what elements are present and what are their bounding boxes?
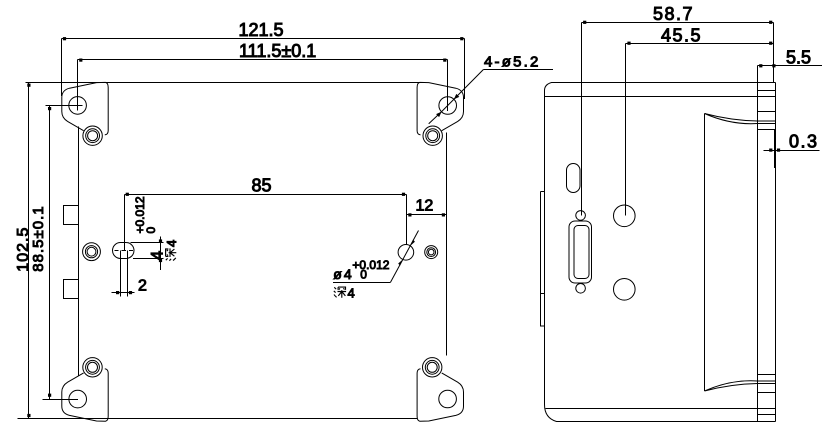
dim 5.5 extension left [757, 66, 759, 83]
body right edge [446, 133, 448, 356]
svg-text:85: 85 [252, 176, 272, 196]
dim 85 extension left (into slot) [124, 195, 126, 251]
centerline bottom-left hole horizontal [43, 399, 79, 401]
dim 0.3 extension [774, 130, 776, 169]
mounting hole top-right (ø5.2) [439, 97, 457, 115]
slot arc-center extension lines for dim 2 [121, 251, 128, 297]
mounting ear bottom-left (mirror) [62, 369, 108, 422]
dim 0.3 line [764, 150, 820, 152]
svg-text:12: 12 [416, 198, 434, 215]
dim 4 ticks [159, 239, 162, 242]
mounting ear top-right (mirror) [417, 82, 463, 134]
svg-text:111.5±0.1: 111.5±0.1 [239, 41, 316, 61]
slot centerline dashes [115, 250, 134, 252]
screw boss bottom-left [83, 358, 102, 377]
dim 121.5 ticks [63, 37, 66, 40]
lid rolled edge top curves [705, 114, 758, 124]
dim 58.7 extension right [773, 23, 775, 83]
dim 102.5 ticks [27, 84, 30, 87]
leader 4-ø5.2 chord through hole [442, 99, 454, 111]
dim 88.5 line vertical [49, 106, 51, 400]
D-sub connector outer [569, 221, 592, 283]
svg-text:0: 0 [144, 227, 158, 234]
DIN rail strip serration lines bottom [758, 375, 776, 415]
svg-text:4: 4 [348, 286, 355, 301]
D-sub connector inner [574, 226, 589, 279]
dim 5.5 line [758, 65, 823, 67]
svg-text:4-ø5.2: 4-ø5.2 [484, 54, 541, 71]
body bottom edge (with 102.5 extension) [18, 418, 418, 420]
depth note 深4 rotated for slot [164, 240, 179, 261]
dim 111.5 ticks [79, 59, 82, 62]
dim 121.5 line [62, 38, 465, 40]
svg-text:88.5±0.1: 88.5±0.1 [30, 205, 47, 271]
dim 58.7 line [582, 22, 774, 24]
lid rolled edge bottom curves [705, 381, 758, 391]
screw boss middle-right [425, 246, 438, 259]
depth note 深4 for ø4 hole [334, 286, 355, 301]
leader ø4 diagonal line with arrows [391, 231, 419, 283]
dim 111.5 extension left (to hole center) [77, 60, 79, 111]
dim 45.5 extension left (to connector center) [625, 44, 627, 216]
dim 4 (slot width) dimension line vertical [160, 237, 162, 271]
svg-text:58.7: 58.7 [653, 4, 694, 24]
leader 4-ø5.2 diagonal line [429, 70, 484, 124]
dim 111.5 extension right (to hole center) [447, 60, 449, 112]
mounting ear bottom-right (mirror) [417, 369, 463, 422]
dim 12 ticks [408, 213, 411, 216]
lid seam top [545, 96, 776, 98]
screw boss middle-left [83, 243, 101, 261]
screw boss top-left [83, 126, 102, 145]
mounting hole top-left (ø5.2) [69, 97, 87, 115]
leader 4-ø5.2 arrowheads [454, 94, 460, 100]
DIN rail strip edges [758, 83, 776, 422]
round connector top [614, 205, 636, 227]
dim 111.5 line [78, 59, 448, 61]
left edge notch lower [64, 280, 79, 299]
DIN rail strip serration lines top [758, 91, 776, 130]
round connector bottom [614, 279, 636, 301]
slot hole 4x2 [113, 243, 135, 259]
svg-text:4: 4 [149, 251, 167, 260]
dim 121.5 extension left [61, 39, 63, 97]
svg-text:ø4: ø4 [333, 266, 353, 282]
dim 2 ticks [116, 291, 119, 294]
svg-text:45.5: 45.5 [661, 26, 702, 46]
mounting hole bottom-left (ø5.2) [69, 390, 87, 408]
dim 58.7 extension left (to D-sub screw center) [581, 23, 583, 216]
svg-text:+0.012: +0.012 [352, 258, 389, 272]
body outline left/top/bottom edges [545, 83, 776, 91]
lid panel left edge [704, 114, 706, 392]
dim 45.5 line [626, 43, 774, 45]
dim 121.5 extension right [464, 39, 466, 100]
dim 4 extension lines [131, 243, 164, 259]
front bezel lip double line [541, 192, 545, 327]
svg-text:121.5: 121.5 [239, 20, 284, 40]
svg-text:5.5: 5.5 [786, 48, 811, 68]
body left edge [78, 127, 80, 376]
D-sub screw bottom [576, 284, 586, 294]
mounting ear top-left [62, 82, 108, 134]
svg-text:2: 2 [138, 278, 147, 295]
dim 85 line [125, 194, 407, 196]
leader 4-ø5.2 underline [484, 69, 554, 71]
dim 102.5 line vertical [28, 83, 30, 419]
svg-text:4: 4 [164, 240, 179, 247]
svg-text:0: 0 [360, 268, 367, 282]
dim 85 ticks [126, 193, 129, 196]
svg-text:0.3: 0.3 [789, 132, 819, 152]
hole ø4 [398, 245, 414, 261]
D-sub screw top [576, 211, 586, 221]
oval cutout [567, 164, 581, 193]
mounting hole bottom-right (ø5.2) [439, 390, 457, 408]
dim 12 line [407, 214, 447, 216]
dim 85 extension right (to ø4 hole) [406, 195, 408, 245]
dim 88.5 ticks [48, 107, 51, 110]
dim 2 line [112, 292, 135, 294]
lid seam bottom [546, 408, 776, 410]
body top edge (with 102.5 extension) [26, 82, 420, 84]
left edge notch upper [64, 206, 79, 225]
screw boss bottom-right [423, 358, 442, 377]
centerline top-left hole horizontal [46, 105, 83, 107]
screw boss top-right [423, 126, 442, 145]
leader ø4 horizontal underline [333, 282, 391, 284]
